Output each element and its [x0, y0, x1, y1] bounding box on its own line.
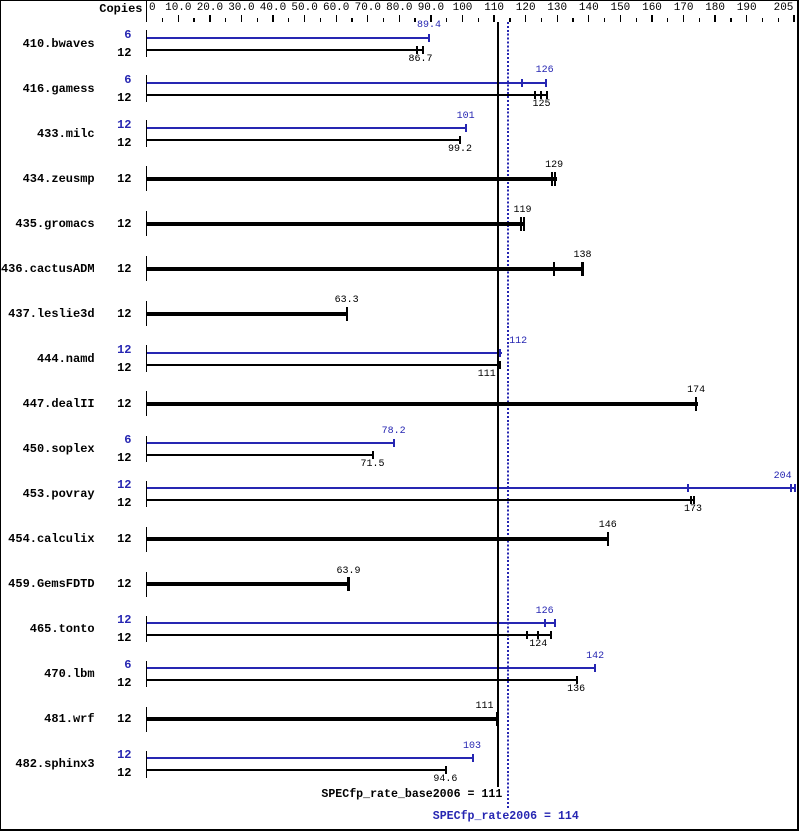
470.lbm base copies label — [90, 677, 132, 689]
435.gromacs copies label — [90, 218, 132, 230]
459.GemsFDTD base=peak (thick) bar — [147, 582, 350, 587]
dotted reference line SPECfp_rate2006 = 114 — [507, 22, 509, 808]
410.bwaves base (black) run marker ticks — [416, 46, 418, 54]
444.namd peak copies label — [90, 344, 132, 356]
x-axis tick labels — [149, 3, 156, 14]
410.bwaves peak copies label — [90, 29, 132, 41]
435.gromacs value label 119 — [513, 206, 531, 216]
447.dealII base=peak (thick) bar — [147, 402, 698, 407]
x-axis major tick marks — [178, 15, 179, 22]
416.gamess base value label 125 — [532, 100, 550, 110]
470.lbm peak value label 142 — [586, 652, 604, 662]
444.namd benchmark label — [0, 353, 95, 365]
436.cactusADM benchmark label — [0, 263, 95, 275]
Copies column header — [61, 3, 143, 15]
453.povray peak copies label — [90, 479, 132, 491]
454.calculix axis stub — [146, 527, 147, 552]
450.soplex peak (blue) bar — [147, 442, 395, 444]
447.dealII value label 174 — [687, 386, 705, 396]
453.povray base copies label — [90, 497, 132, 509]
summary text SPECfp_rate_base2006 = 111 — [300, 789, 502, 801]
437.leslie3d copies label — [90, 308, 132, 320]
summary text SPECfp_rate2006 = 114 — [433, 811, 579, 823]
433.milc peak copies label — [90, 119, 132, 131]
453.povray peak value label 204 — [774, 472, 792, 482]
459.GemsFDTD benchmark label — [0, 578, 95, 590]
416.gamess benchmark label — [0, 83, 95, 95]
410.bwaves base (black) bar — [147, 49, 424, 51]
453.povray peak (blue) run marker ticks — [687, 484, 689, 492]
453.povray axis stub — [146, 481, 147, 508]
444.namd base value label 111 — [478, 370, 496, 380]
481.wrf value label 111 — [475, 702, 493, 712]
444.namd base (black) run marker ticks — [499, 361, 501, 369]
459.GemsFDTD value label 63.9 — [336, 567, 360, 577]
482.sphinx3 peak copies label — [90, 749, 132, 761]
450.soplex axis stub — [146, 436, 147, 463]
433.milc base value label 99.2 — [448, 145, 472, 155]
470.lbm base value label 136 — [567, 685, 585, 695]
416.gamess peak value label 126 — [536, 66, 554, 76]
482.sphinx3 peak value label 103 — [463, 742, 481, 752]
434.zeusmp value label 129 — [545, 161, 563, 171]
481.wrf base=peak (thick) run marker ticks — [496, 712, 498, 726]
433.milc axis stub — [146, 120, 147, 147]
465.tonto base value label 124 — [529, 640, 547, 650]
416.gamess peak (blue) run marker ticks — [521, 79, 523, 87]
chart outer border right — [797, 0, 799, 831]
410.bwaves benchmark label — [0, 38, 95, 50]
chart outer border bottom — [0, 829, 799, 831]
434.zeusmp base=peak (thick) run marker ticks — [551, 172, 553, 186]
481.wrf base=peak (thick) bar — [147, 717, 498, 722]
447.dealII base=peak (thick) run marker ticks — [695, 397, 697, 411]
470.lbm axis stub — [146, 661, 147, 688]
465.tonto base copies label — [90, 632, 132, 644]
x-axis origin line (value 0) — [146, 0, 147, 22]
482.sphinx3 base (black) bar — [147, 769, 447, 771]
453.povray base value label 173 — [684, 505, 702, 515]
470.lbm base (black) run marker ticks — [576, 676, 578, 684]
chart outer border left — [0, 0, 1, 831]
482.sphinx3 base value label 94.6 — [433, 775, 457, 785]
410.bwaves peak (blue) bar — [147, 37, 430, 39]
482.sphinx3 benchmark label — [0, 758, 95, 770]
450.soplex peak copies label — [90, 434, 132, 446]
459.GemsFDTD base=peak (thick) run marker ticks — [347, 577, 349, 591]
416.gamess peak copies label — [90, 74, 132, 86]
465.tonto axis stub — [146, 616, 147, 643]
450.soplex peak value label 78.2 — [382, 427, 406, 437]
435.gromacs benchmark label — [0, 218, 95, 230]
450.soplex base (black) bar — [147, 454, 374, 456]
433.milc base (black) run marker ticks — [459, 136, 461, 144]
434.zeusmp axis stub — [146, 166, 147, 191]
416.gamess base (black) run marker ticks — [534, 91, 536, 99]
465.tonto base (black) bar — [147, 634, 552, 636]
447.dealII axis stub — [146, 391, 147, 416]
435.gromacs base=peak (thick) bar — [147, 222, 525, 227]
470.lbm base (black) bar — [147, 679, 578, 681]
450.soplex base copies label — [90, 452, 132, 464]
454.calculix base=peak (thick) bar — [147, 537, 609, 542]
444.namd peak (blue) run marker ticks — [499, 349, 501, 357]
437.leslie3d base=peak (thick) run marker ticks — [346, 307, 348, 321]
453.povray benchmark label — [0, 488, 95, 500]
450.soplex peak (blue) run marker ticks — [393, 439, 395, 447]
434.zeusmp base=peak (thick) bar — [147, 177, 557, 182]
459.GemsFDTD copies label — [90, 578, 132, 590]
chart outer border top — [0, 0, 799, 1]
436.cactusADM copies label — [90, 263, 132, 275]
465.tonto benchmark label — [0, 623, 95, 635]
447.dealII copies label — [90, 398, 132, 410]
433.milc benchmark label — [0, 128, 95, 140]
481.wrf axis stub — [146, 707, 147, 732]
436.cactusADM base=peak (thick) bar — [147, 267, 584, 272]
470.lbm peak (blue) run marker ticks — [594, 664, 596, 672]
437.leslie3d value label 63.3 — [335, 296, 359, 306]
416.gamess axis stub — [146, 75, 147, 102]
459.GemsFDTD axis stub — [146, 572, 147, 597]
465.tonto peak (blue) run marker ticks — [544, 619, 546, 627]
436.cactusADM axis stub — [146, 256, 147, 281]
450.soplex base value label 71.5 — [360, 460, 384, 470]
433.milc peak value label 101 — [457, 112, 475, 122]
454.calculix benchmark label — [0, 533, 95, 545]
450.soplex base (black) run marker ticks — [372, 451, 374, 459]
433.milc peak (blue) bar — [147, 127, 467, 129]
410.bwaves axis stub — [146, 30, 147, 57]
solid reference line SPECfp_rate_base2006 = 111 — [497, 22, 499, 787]
410.bwaves base copies label — [90, 47, 132, 59]
454.calculix base=peak (thick) run marker ticks — [607, 532, 609, 546]
437.leslie3d axis stub — [146, 301, 147, 326]
435.gromacs axis stub — [146, 211, 147, 236]
470.lbm peak (blue) bar — [147, 667, 596, 669]
410.bwaves peak value label 89.4 — [417, 21, 441, 31]
444.namd peak (blue) bar — [147, 352, 502, 354]
433.milc base copies label — [90, 137, 132, 149]
433.milc peak (blue) run marker ticks — [465, 124, 467, 132]
482.sphinx3 base copies label — [90, 767, 132, 779]
481.wrf copies label — [90, 713, 132, 725]
437.leslie3d benchmark label — [0, 308, 95, 320]
x-axis minor tick marks — [162, 18, 163, 22]
481.wrf benchmark label — [0, 713, 95, 725]
416.gamess base (black) bar — [147, 94, 548, 96]
482.sphinx3 axis stub — [146, 751, 147, 778]
416.gamess peak (blue) bar — [147, 82, 547, 84]
434.zeusmp benchmark label — [0, 173, 95, 185]
416.gamess base copies label — [90, 92, 132, 104]
470.lbm benchmark label — [0, 668, 95, 680]
444.namd axis stub — [146, 345, 147, 372]
470.lbm peak copies label — [90, 659, 132, 671]
482.sphinx3 peak (blue) run marker ticks — [472, 754, 474, 762]
410.bwaves base value label 86.7 — [408, 55, 432, 65]
465.tonto peak value label 126 — [536, 607, 554, 617]
465.tonto peak copies label — [90, 614, 132, 626]
482.sphinx3 base (black) run marker ticks — [445, 766, 447, 774]
410.bwaves peak (blue) run marker ticks — [428, 34, 430, 42]
453.povray base (black) bar — [147, 499, 695, 501]
444.namd base copies label — [90, 362, 132, 374]
435.gromacs base=peak (thick) run marker ticks — [520, 217, 522, 231]
454.calculix value label 146 — [599, 521, 617, 531]
482.sphinx3 peak (blue) bar — [147, 757, 474, 759]
450.soplex benchmark label — [0, 443, 95, 455]
433.milc base (black) bar — [147, 139, 461, 141]
444.namd base (black) bar — [147, 364, 501, 366]
434.zeusmp copies label — [90, 173, 132, 185]
436.cactusADM value label 138 — [573, 251, 591, 261]
436.cactusADM base=peak (thick) run marker ticks — [553, 262, 555, 276]
453.povray peak (blue) bar — [147, 487, 796, 489]
465.tonto peak (blue) bar — [147, 622, 556, 624]
454.calculix copies label — [90, 533, 132, 545]
465.tonto base (black) run marker ticks — [526, 631, 528, 639]
437.leslie3d base=peak (thick) bar — [147, 312, 348, 317]
444.namd peak value label 112 — [509, 337, 527, 347]
447.dealII benchmark label — [0, 398, 95, 410]
453.povray base (black) run marker ticks — [690, 496, 692, 504]
